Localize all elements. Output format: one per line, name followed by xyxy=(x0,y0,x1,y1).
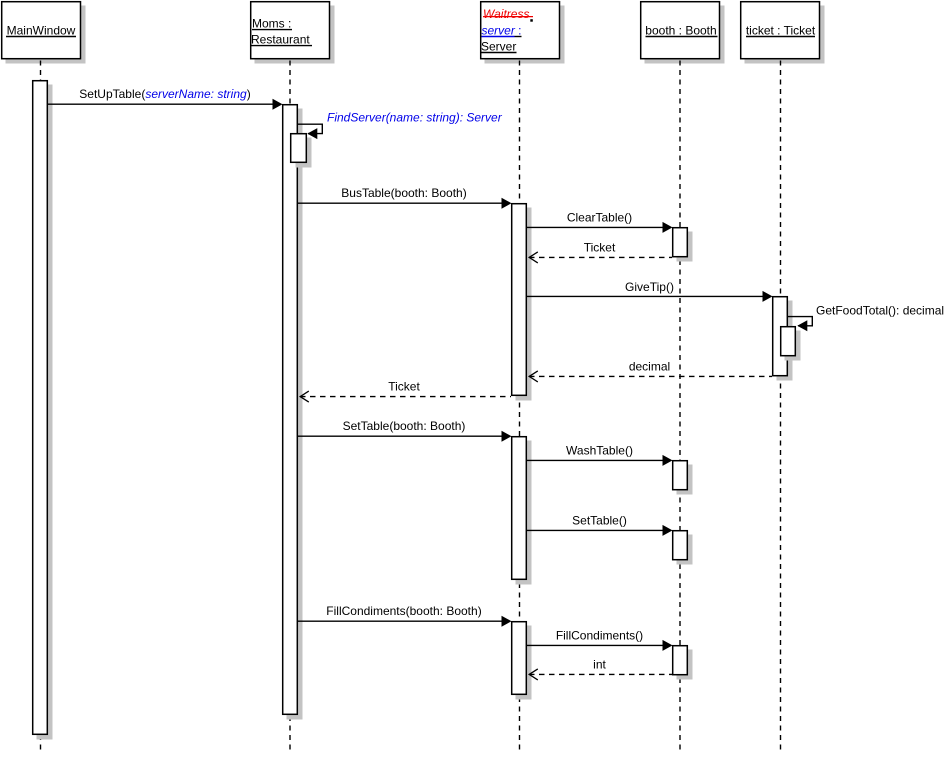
svg-text:WashTable(): WashTable() xyxy=(566,444,633,458)
message FillCondiments() xyxy=(527,629,673,651)
svg-text:MainWindow: MainWindow xyxy=(7,24,76,38)
lifeline booth xyxy=(679,61,681,755)
svg-text:server :: server : xyxy=(482,24,522,38)
activation bar booth SetTable xyxy=(673,531,693,565)
object box MainWindow xyxy=(2,2,86,64)
object box ticket : Ticket xyxy=(741,2,825,64)
svg-text:Server: Server xyxy=(481,40,516,54)
svg-text:GiveTip(): GiveTip() xyxy=(625,280,674,294)
svg-text:SetTable(booth: Booth): SetTable(booth: Booth) xyxy=(343,419,466,433)
message WashTable() xyxy=(527,444,673,466)
message GiveTip() xyxy=(527,280,773,302)
activation bar booth FillCondiments xyxy=(673,646,693,680)
lifeline ticket xyxy=(780,61,782,755)
message SetTable() xyxy=(527,514,673,536)
object box Waitress server : Server xyxy=(481,2,565,64)
self message FindServer(name: string): Server xyxy=(298,111,503,140)
activation bar server BusTable xyxy=(512,204,532,401)
message FillCondiments(booth: Booth) xyxy=(298,604,512,627)
message BusTable(booth: Booth) xyxy=(298,186,512,209)
svg-text:FindServer(name: string): Serv: FindServer(name: string): Server xyxy=(327,111,503,125)
activation bar ticket GiveTip xyxy=(773,297,793,381)
activation bar booth ClearTable xyxy=(673,228,693,262)
return message decimal (ticket to server) xyxy=(529,360,772,382)
svg-text:FillCondiments(booth: Booth): FillCondiments(booth: Booth) xyxy=(326,604,481,618)
svg-text:SetTable(): SetTable() xyxy=(572,514,627,528)
object box Moms : Restaurant xyxy=(251,2,335,64)
svg-text:booth : Booth: booth : Booth xyxy=(645,24,716,38)
svg-text:Ticket: Ticket xyxy=(388,380,420,394)
lifeline server xyxy=(519,61,521,755)
message SetUpTable(serverName: string) xyxy=(48,87,283,110)
activation bar booth WashTable xyxy=(673,461,693,495)
svg-text:Moms :: Moms : xyxy=(252,17,291,31)
lifeline MainWindow xyxy=(40,61,42,755)
return message int (booth to server) xyxy=(529,658,672,680)
svg-text:BusTable(booth: Booth): BusTable(booth: Booth) xyxy=(341,186,466,200)
svg-text:Waitress: Waitress xyxy=(483,7,529,21)
activation bar Moms Restaurant xyxy=(283,105,303,720)
svg-text:Restaurant: Restaurant xyxy=(251,33,310,47)
svg-text:SetUpTable(serverName: string): SetUpTable(serverName: string) xyxy=(79,87,250,101)
activation bar ticket nested GetFoodTotal xyxy=(781,327,801,361)
svg-text:FillCondiments(): FillCondiments() xyxy=(556,629,643,643)
activation bar MainWindow xyxy=(33,81,53,740)
svg-text:ClearTable(): ClearTable() xyxy=(567,211,632,225)
message SetTable(booth: Booth) xyxy=(298,419,512,442)
self message GetFoodTotal(): decimal xyxy=(788,304,944,332)
object box booth : Booth xyxy=(641,2,725,64)
activation bar Moms nested FindServer xyxy=(291,134,312,168)
activation bar server SetTable xyxy=(512,437,532,585)
return message Ticket (booth to server) xyxy=(529,241,672,263)
svg-text:Ticket: Ticket xyxy=(584,241,616,255)
lifeline Moms Restaurant xyxy=(289,61,291,755)
svg-text:int: int xyxy=(593,658,606,672)
activation bar server FillCondiments xyxy=(512,622,532,700)
message ClearTable() xyxy=(527,211,673,233)
svg-text:ticket : Ticket: ticket : Ticket xyxy=(746,24,816,38)
svg-text:GetFoodTotal(): decimal: GetFoodTotal(): decimal xyxy=(816,304,944,318)
svg-text:decimal: decimal xyxy=(629,360,670,374)
return message Ticket (server to Moms) xyxy=(300,380,511,403)
